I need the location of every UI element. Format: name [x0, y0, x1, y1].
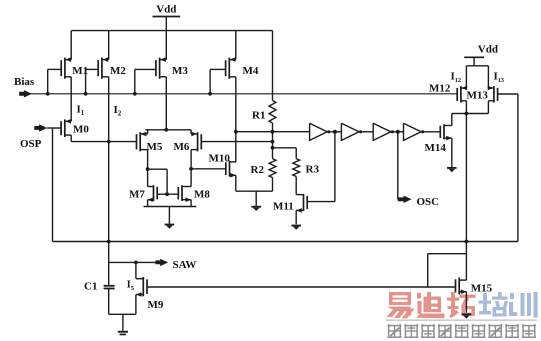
svg-text:M2: M2: [110, 65, 126, 77]
svg-text:I12: I12: [451, 71, 461, 85]
svg-text:M10: M10: [209, 152, 231, 164]
svg-text:R2: R2: [251, 164, 265, 176]
svg-text:M3: M3: [172, 65, 188, 77]
svg-text:I13: I13: [494, 71, 504, 85]
svg-text:I2: I2: [114, 104, 122, 118]
svg-text:M5: M5: [147, 141, 163, 153]
svg-text:M1: M1: [72, 65, 88, 77]
svg-text:M0: M0: [73, 123, 89, 135]
svg-text:Vdd: Vdd: [478, 43, 498, 55]
svg-text:Vdd: Vdd: [156, 3, 176, 15]
svg-text:R3: R3: [306, 163, 320, 175]
svg-text:M11: M11: [273, 200, 294, 212]
svg-text:M14: M14: [425, 142, 447, 154]
svg-text:M12: M12: [429, 82, 451, 94]
svg-text:C1: C1: [84, 280, 97, 292]
svg-text:M13: M13: [467, 89, 489, 101]
svg-text:M15: M15: [471, 283, 493, 295]
svg-text:OSP: OSP: [20, 138, 42, 150]
svg-text:M4: M4: [243, 65, 259, 77]
svg-text:I5: I5: [127, 279, 135, 292]
svg-text:OSC: OSC: [417, 196, 440, 208]
svg-text:I1: I1: [77, 104, 85, 118]
svg-text:R1: R1: [252, 109, 265, 121]
svg-text:M6: M6: [174, 141, 190, 153]
svg-text:SAW: SAW: [173, 259, 197, 271]
svg-text:Bias: Bias: [14, 76, 35, 88]
svg-text:M8: M8: [194, 188, 210, 200]
svg-text:M9: M9: [148, 299, 164, 311]
svg-text:M7: M7: [129, 188, 145, 200]
